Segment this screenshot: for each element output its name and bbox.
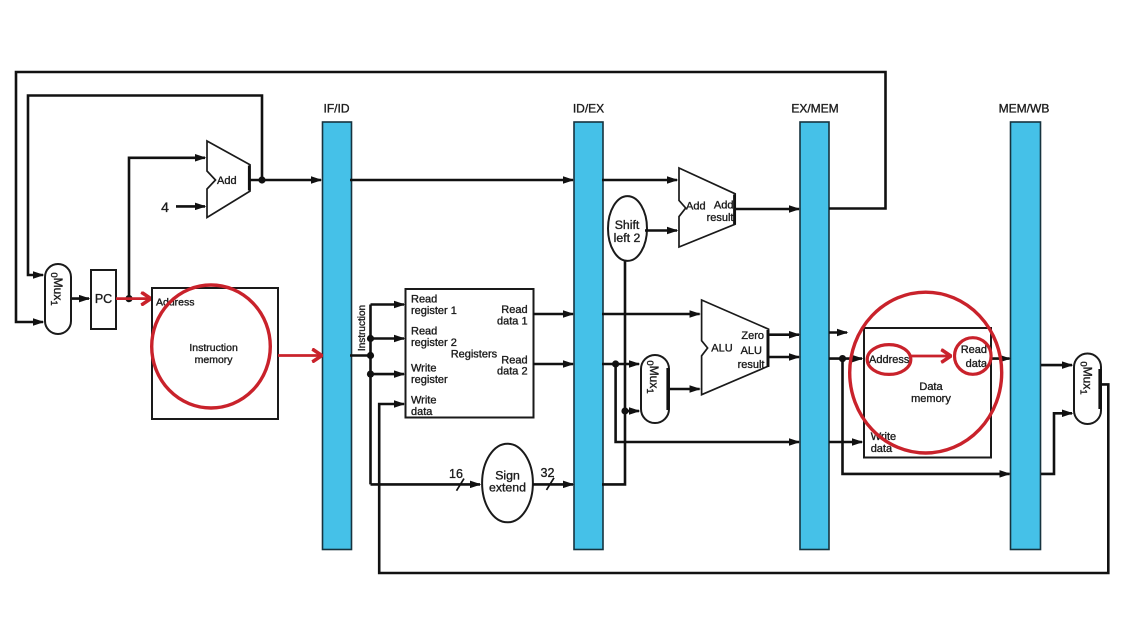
red highlight circle around instruction memory [152, 285, 271, 408]
wire instruction immediate to sign extend [371, 483, 481, 486]
svg-text:Instruction: Instruction [357, 305, 368, 351]
node junction instruction bus at IF/ID stub [367, 352, 374, 359]
wire Add2 output to EX/MEM [735, 208, 799, 211]
node junction read data 2 split [612, 360, 619, 367]
svg-text:Shift: Shift [615, 218, 640, 232]
svg-text:data: data [411, 406, 433, 418]
pipeline register EX/MEM [791, 102, 838, 550]
svg-text:ID/EX: ID/EX [573, 102, 604, 116]
pipeline register IF/ID [323, 102, 352, 550]
mux M3 (write-back mux) [1074, 354, 1101, 425]
wire write data into data memory [829, 441, 862, 444]
wire immediate into ALU mux input 1 [625, 410, 639, 413]
wire instruction to Read register 1 [371, 303, 405, 306]
wire PC+4 ID/EX to Add2 top input [602, 179, 677, 182]
wire data memory Read data to MEM/WB [991, 357, 1010, 360]
svg-text:Write: Write [411, 395, 436, 407]
red highlight circle around data memory [850, 292, 1002, 453]
wire Add output to IF/ID [250, 179, 321, 182]
svg-text:Read: Read [411, 294, 437, 306]
wire PC value up to Add top input [129, 158, 205, 299]
svg-text:data 2: data 2 [497, 366, 528, 378]
svg-text:Add: Add [217, 175, 237, 187]
op-amp style ALU [702, 300, 769, 395]
red highlight oval around Read data [955, 338, 992, 375]
svg-text:Add: Add [686, 201, 706, 213]
svg-text:EX/MEM: EX/MEM [791, 102, 838, 116]
bus width slash 32 [547, 478, 555, 490]
wire mux M1 output to PC [71, 297, 89, 300]
pipeline register MEM/WB [999, 102, 1050, 550]
ellipse shift left 2 [608, 196, 647, 261]
wire PC+4 IF/ID to ID/EX [350, 179, 573, 182]
wire MEM/WB ALU result to final mux input 1 [1041, 413, 1072, 474]
pipeline register ID/EX [573, 102, 604, 550]
wire instruction memory to IF/ID (red highlighted) [278, 354, 321, 357]
wire instruction stub after IF/ID [350, 354, 371, 357]
wire Zero stub after EX/MEM [829, 331, 847, 334]
svg-text:result: result [707, 212, 734, 224]
svg-text:Instruction: Instruction [189, 342, 238, 354]
wire PC to instruction memory Address (red highlighted) [116, 297, 150, 300]
node junction ALU result bypass [839, 355, 846, 362]
wire immediate right of ID/EX up to shift left 2 [602, 261, 625, 484]
registers box [406, 289, 534, 418]
svg-text:ALU: ALU [741, 345, 762, 357]
bus width slash 16 [457, 479, 465, 491]
svg-text:Registers: Registers [451, 349, 498, 361]
svg-text:register 2: register 2 [411, 337, 457, 349]
wire read data 1 to ID/EX [533, 313, 573, 316]
svg-text:data 1: data 1 [497, 316, 528, 328]
instruction memory box [152, 288, 278, 419]
wire write-back data from final mux to registers Write data [379, 384, 1108, 573]
register PC [91, 270, 116, 329]
mux M1 (PC source mux) [45, 264, 71, 334]
node junction PC output branch [125, 295, 132, 302]
wire ALU result bypass down to MEM/WB [843, 359, 1010, 474]
mux M2 (ALU source mux) [641, 355, 669, 423]
node junction Add output [258, 176, 265, 183]
svg-text:Zero: Zero [741, 330, 764, 342]
wire read data 2 down to memory write data path [616, 364, 799, 442]
node junction instruction bus at write register [367, 371, 374, 378]
node junction immediate to ALU mux [621, 407, 628, 414]
ellipse sign extend [482, 444, 533, 523]
svg-text:extend: extend [489, 481, 526, 495]
svg-text:32: 32 [541, 466, 555, 480]
wire ALU result output to EX/MEM [769, 356, 799, 359]
data memory box [864, 328, 991, 458]
svg-text:Add: Add [714, 200, 734, 212]
adder Add2 (branch target, Add result) [679, 168, 735, 247]
red arrow Address to Read data [911, 355, 950, 358]
svg-text:Read: Read [961, 344, 987, 356]
svg-text:IF/ID: IF/ID [324, 102, 350, 116]
svg-text:PC: PC [95, 292, 112, 306]
svg-text:4: 4 [161, 199, 169, 215]
svg-text:result: result [738, 359, 765, 371]
wire PC+4 from Add output up and back to PC mux input 0 [28, 96, 262, 276]
mux M1 output port line [68, 278, 71, 320]
wire branch-target loop from EX/MEM back to PC mux input 1 [16, 72, 886, 322]
svg-text:left 2: left 2 [614, 231, 641, 245]
ALU output port line [767, 330, 770, 367]
wire ALU Zero output to EX/MEM [769, 333, 799, 336]
wire instruction to Read register 2 [371, 337, 405, 340]
wire instruction bus vertical [369, 305, 372, 485]
wire mux M2 output to ALU bottom input [669, 388, 700, 391]
svg-text:Read: Read [411, 326, 437, 338]
wire sign extend output to ID/EX [533, 483, 573, 486]
adder Add output port line [248, 166, 251, 191]
mux M3 output port line [1098, 369, 1101, 409]
wire ALU result to data memory Address [829, 357, 862, 360]
svg-text:Address: Address [869, 354, 910, 366]
mux M2 output port line [666, 368, 669, 410]
red highlight oval around Address [867, 345, 911, 375]
wire shift left 2 to Add2 bottom input [645, 229, 677, 232]
wire read data 1 ID/EX to ALU top input [602, 313, 700, 316]
svg-text:memory: memory [911, 393, 951, 405]
svg-text:Data: Data [919, 381, 943, 393]
wire constant 4 into Add [176, 205, 205, 208]
svg-text:MEM/WB: MEM/WB [999, 102, 1050, 116]
wire instruction to Write register [371, 373, 405, 376]
svg-text:16: 16 [449, 467, 463, 481]
adder Add (PC+4) [207, 141, 250, 218]
wire read data 2 ID/EX to ALU mux input 0 [602, 363, 639, 366]
wire MEM/WB read data to final mux input 0 [1041, 364, 1072, 367]
wire read data 2 to ID/EX [533, 363, 573, 366]
svg-text:register 1: register 1 [411, 305, 457, 317]
svg-text:memory: memory [195, 354, 234, 366]
node junction instruction bus at read register 2 [367, 335, 374, 342]
svg-text:ALU: ALU [711, 343, 732, 355]
svg-text:Read: Read [501, 304, 527, 316]
svg-text:Write: Write [411, 363, 436, 375]
svg-text:register: register [411, 374, 448, 386]
adder Add2 output port line [733, 195, 736, 225]
